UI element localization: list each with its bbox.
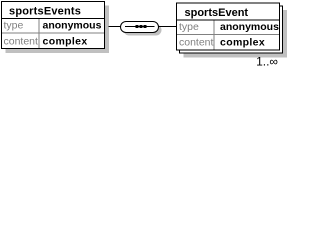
svg-text:anonymous: anonymous [220,21,279,33]
sequence compositor [121,22,159,33]
svg-text:anonymous: anonymous [43,20,102,32]
svg-text:sportsEvent: sportsEvent [185,7,249,19]
svg-text:type: type [179,21,199,33]
svg-text:content: content [4,36,39,48]
svg-text:complex: complex [43,36,88,48]
element box sportsEvents: shadow [6,6,110,54]
wire from sequence to sportsEvent [159,26,177,28]
element box sportsEvent: frame [176,3,280,50]
sequence compositor: shadow [124,25,162,36]
svg-text:1..∞: 1..∞ [256,55,278,69]
sequence dot 3 [144,25,147,28]
svg-text:sportsEvents: sportsEvents [9,6,81,18]
sequence dot 1 [136,25,139,28]
sequence inner line [125,26,155,28]
sequence dot 2 [140,25,143,28]
element box sportsEvent: shadow [184,10,288,58]
svg-text:complex: complex [220,37,265,49]
wire from sportsEvents to sequence [109,26,122,28]
svg-text:type: type [4,20,24,32]
element box sportsEvent: stacked ghost (multiple occurrence) [180,6,283,53]
svg-text:content: content [179,37,214,49]
element box sportsEvents: frame [1,2,105,49]
